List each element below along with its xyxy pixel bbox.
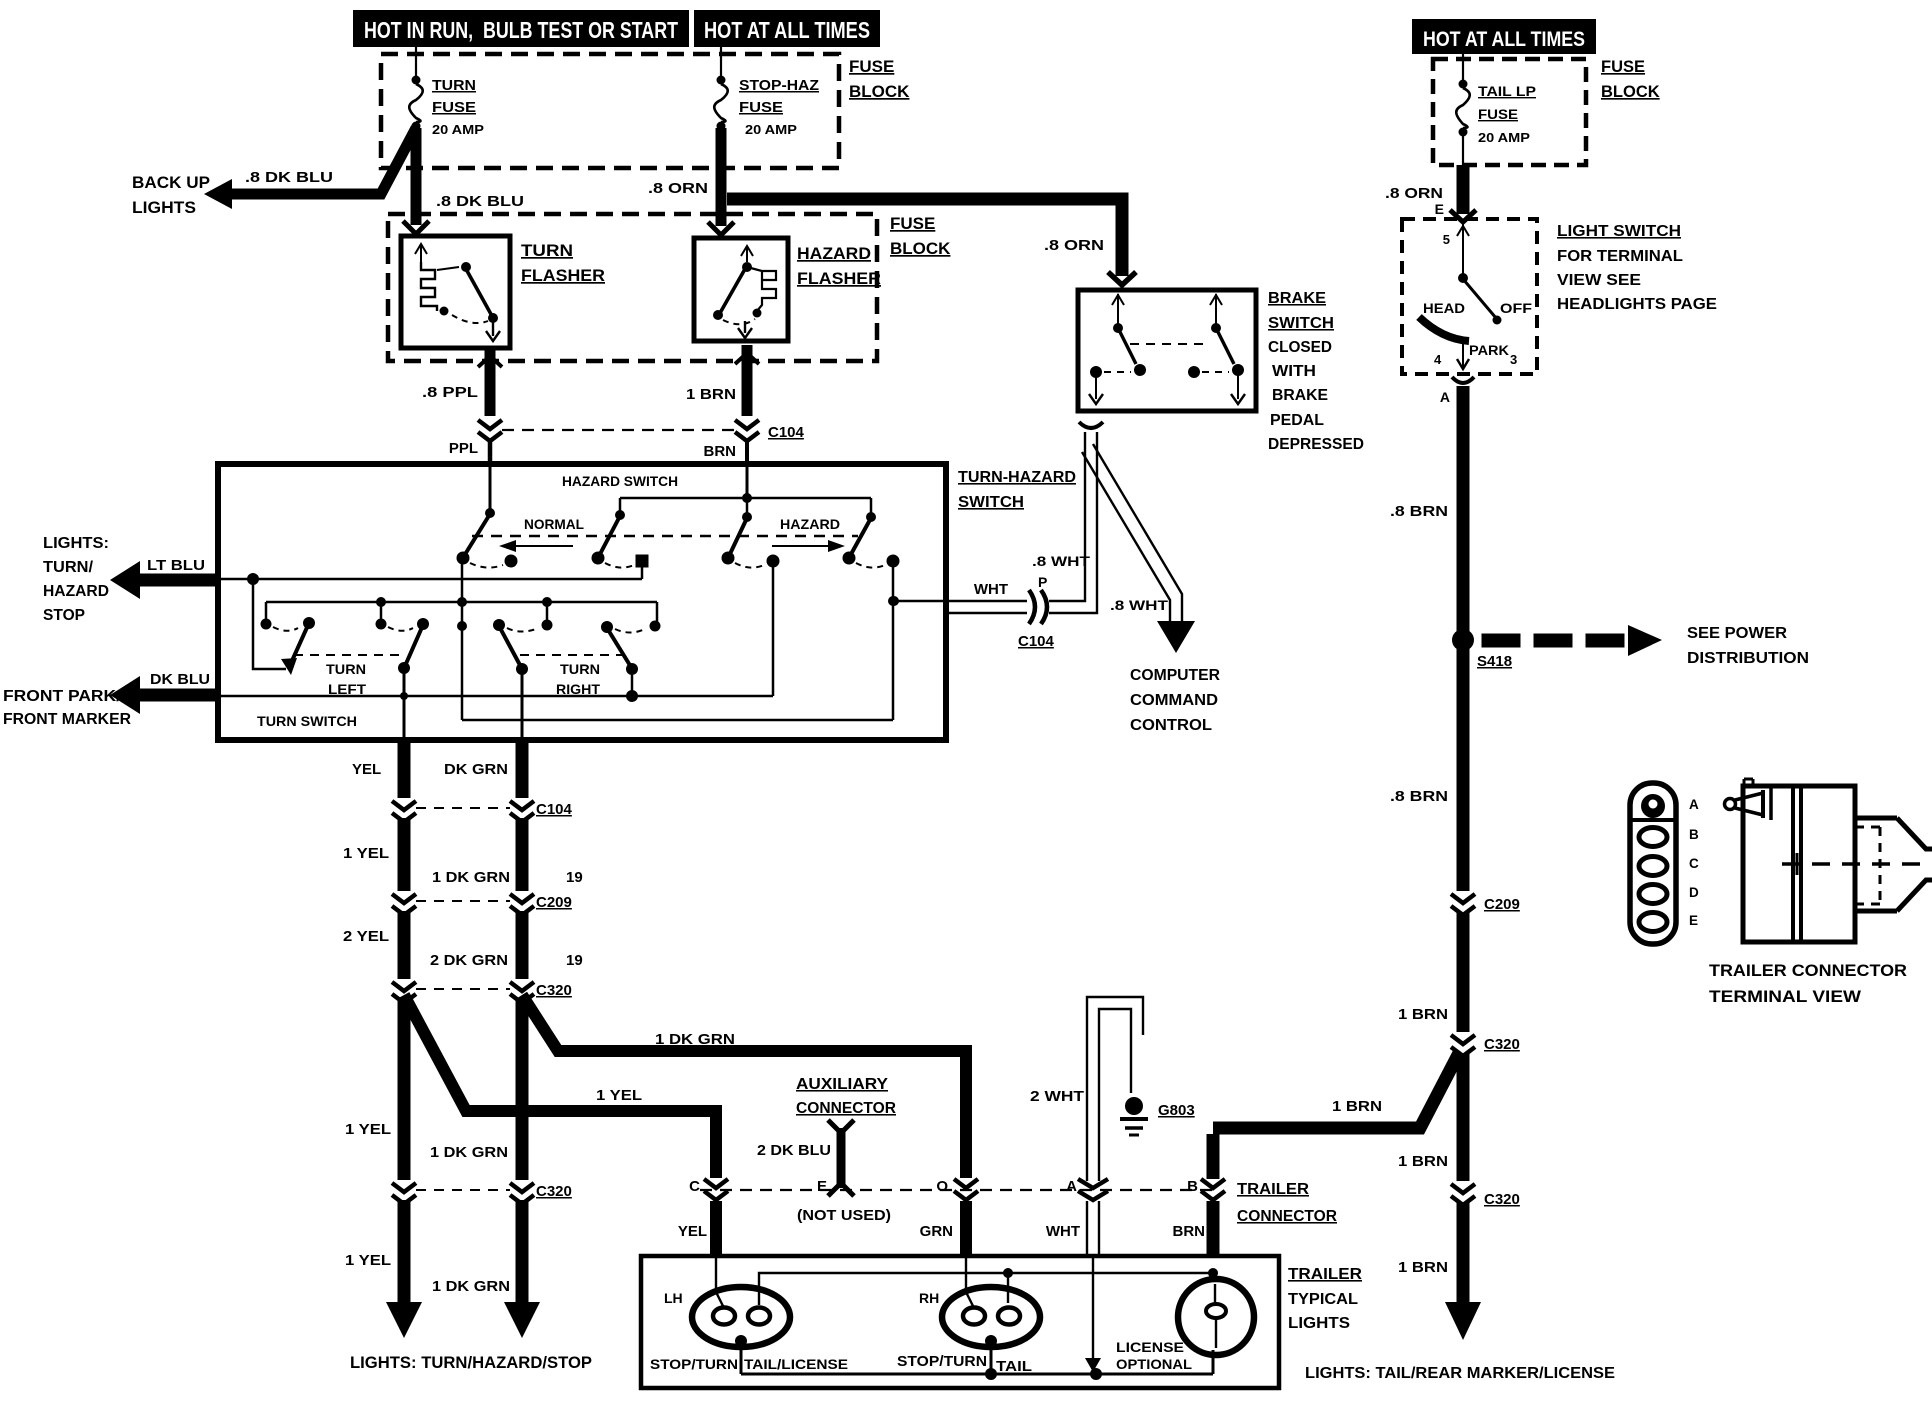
svg-text:.8 DK BLU: .8 DK BLU (436, 193, 524, 210)
svg-text:S418: S418 (1477, 653, 1512, 670)
wire 1 BRN trunk (C209 to C320) (1398, 913, 1463, 1032)
svg-text:19: 19 (566, 869, 583, 886)
svg-text:OFF: OFF (1500, 301, 1532, 316)
svg-text:PPL: PPL (449, 440, 478, 457)
svg-text:2 YEL: 2 YEL (343, 928, 389, 945)
svg-text:CONNECTOR: CONNECTOR (796, 1100, 896, 1117)
svg-text:.8 BRN: .8 BRN (1390, 788, 1448, 805)
svg-text:1 DK GRN: 1 DK GRN (655, 1031, 735, 1048)
wire labels 1 YEL / 1 DK GRN bottom (345, 1252, 510, 1295)
svg-text:(NOT USED): (NOT USED) (797, 1207, 891, 1224)
wire .8 ORN branch to brake switch (727, 199, 1136, 285)
turn right blade (601, 621, 661, 703)
svg-text:2 DK BLU: 2 DK BLU (757, 1142, 831, 1159)
svg-text:1 YEL: 1 YEL (345, 1121, 391, 1138)
svg-text:RH: RH (919, 1290, 939, 1306)
svg-text:C320: C320 (1484, 1191, 1520, 1208)
auxiliary connector (not used) (757, 1076, 896, 1224)
svg-text:TAIL: TAIL (996, 1359, 1032, 1375)
turn left travel dashed line (294, 654, 404, 656)
svg-text:DEPRESSED: DEPRESSED (1268, 436, 1364, 453)
svg-text:TURN SWITCH: TURN SWITCH (257, 713, 357, 729)
light switch (dashed box) (1402, 219, 1537, 374)
svg-text:19: 19 (566, 952, 583, 969)
svg-text:FRONT PARK/: FRONT PARK/ (3, 688, 122, 705)
svg-text:C320: C320 (536, 1183, 572, 1200)
wire PPL into turn-hazard switch (449, 440, 490, 464)
svg-text:TERMINAL VIEW: TERMINAL VIEW (1709, 988, 1861, 1006)
svg-text:C: C (1689, 856, 1699, 871)
svg-text:2 WHT: 2 WHT (1030, 1088, 1084, 1105)
svg-text:WHT: WHT (1046, 1223, 1080, 1240)
wire license optional drop (1085, 1256, 1192, 1372)
connector C209 (YEL/DK GRN row) (392, 894, 572, 915)
fuse F3 TAIL LP FUSE 20 AMP (1456, 54, 1536, 165)
svg-text:1 DK GRN: 1 DK GRN (430, 1144, 508, 1161)
label FUSE BLOCK (left) (849, 57, 910, 101)
svg-text:C320: C320 (536, 982, 572, 999)
wire 2 WHT hairpin to ground (1030, 997, 1143, 1181)
lamp LH stop/turn tail/license (664, 1256, 790, 1374)
svg-text:PEDAL: PEDAL (1270, 412, 1324, 429)
svg-text:AUXILIARY: AUXILIARY (796, 1076, 889, 1093)
trailer lamp common bus (741, 1350, 1213, 1380)
svg-text:STOP/TURN: STOP/TURN (650, 1356, 738, 1372)
svg-text:TURN: TURN (560, 661, 600, 677)
label BRAKE SWITCH CLOSED WITH BRAKE PEDAL DEPRESSED (1268, 290, 1364, 453)
svg-text:HAZARD: HAZARD (780, 516, 840, 532)
svg-text:FOR TERMINAL: FOR TERMINAL (1557, 248, 1683, 265)
svg-text:A: A (1066, 1178, 1077, 1195)
ground G803 (1120, 1097, 1195, 1135)
svg-text:BRN: BRN (704, 443, 737, 460)
svg-text:TAIL LP: TAIL LP (1478, 83, 1536, 99)
svg-text:TURN-HAZARD: TURN-HAZARD (958, 469, 1076, 486)
svg-text:.8 ORN: .8 ORN (1385, 185, 1443, 202)
svg-text:FLASHER: FLASHER (521, 266, 605, 285)
connector C104 (YEL/DK GRN row) (392, 801, 573, 822)
svg-text:1 BRN: 1 BRN (1398, 1153, 1448, 1170)
svg-text:STOP-HAZ: STOP-HAZ (739, 77, 819, 94)
svg-text:1 YEL: 1 YEL (345, 1252, 391, 1269)
svg-text:BRN: BRN (1173, 1223, 1206, 1240)
turn-hazard switch box (218, 464, 946, 740)
svg-text:HOT IN RUN, BULB TEST OR STAR: HOT IN RUN, BULB TEST OR START (364, 17, 678, 43)
svg-text:G803: G803 (1158, 1102, 1195, 1119)
DK BLU bus inside switch (line A) (218, 695, 773, 698)
turn switch blade 2 (to YEL) (376, 602, 430, 674)
wire 1 DK GRN branch to trailer connector O (522, 995, 966, 1178)
label HAZARD SWITCH (562, 473, 678, 489)
svg-text:BLOCK: BLOCK (849, 82, 910, 101)
svg-text:LIGHTS: TURN/HAZARD/STOP: LIGHTS: TURN/HAZARD/STOP (350, 1354, 592, 1372)
wire 1 YEL branch to trailer connector C (404, 995, 716, 1178)
svg-text:STOP: STOP (43, 607, 85, 624)
connector A (trailer, WHT) (1046, 1178, 1108, 1256)
label LIGHTS: TURN/HAZARD/STOP (350, 1354, 592, 1372)
wire .8 ORN tail lp fuse to light switch (1385, 165, 1476, 222)
power feed label HOT IN RUN BULB TEST OR START (353, 10, 689, 47)
svg-text:C104: C104 (1018, 633, 1055, 650)
svg-text:VIEW SEE: VIEW SEE (1557, 272, 1641, 289)
wire LT BLU output arrow (110, 557, 218, 599)
hazard switch travel dashed line (472, 535, 858, 537)
hazard flasher U2 (694, 238, 881, 341)
svg-text:CONNECTOR: CONNECTOR (1237, 1208, 1337, 1225)
hazard feed bus (BRN) (620, 464, 871, 515)
svg-text:A: A (1440, 389, 1450, 405)
wire .8 PPL flasher to connector (422, 348, 502, 416)
label TURN RIGHT (556, 661, 600, 697)
svg-text:E: E (1435, 201, 1444, 217)
normal direction arrow (499, 540, 573, 552)
trailer typical lights box (641, 1256, 1279, 1388)
lamp RH stop/turn tail (919, 1256, 1040, 1374)
svg-text:TAIL/LICENSE: TAIL/LICENSE (744, 1356, 848, 1372)
svg-text:LIGHTS:: LIGHTS: (43, 535, 109, 552)
label FUSE BLOCK (right) (1601, 58, 1660, 101)
turn flasher U1 (401, 236, 605, 348)
svg-text:2 DK GRN: 2 DK GRN (430, 952, 508, 969)
wire YEL (turn left feed) (386, 740, 422, 1338)
svg-text:E: E (817, 1178, 827, 1195)
fuse block 2 (dashed box, flashers) (388, 214, 877, 361)
connector C320 (trunk 2) (1451, 1184, 1520, 1208)
svg-text:HAZARD SWITCH: HAZARD SWITCH (562, 473, 678, 489)
svg-text:YEL: YEL (678, 1223, 707, 1240)
wire WHT turn-hazard switch to C104 (889, 553, 1169, 613)
connector C (trailer, YEL) (678, 1178, 728, 1256)
svg-text:GRN: GRN (920, 1223, 953, 1240)
svg-text:O: O (936, 1178, 948, 1195)
wire YEL column to box bottom (400, 668, 408, 740)
svg-text:1 DK GRN: 1 DK GRN (432, 1278, 510, 1295)
svg-text:LIGHTS: LIGHTS (132, 198, 196, 217)
labels trailer lamp functions (650, 1353, 1032, 1375)
fuse F2 STOP-HAZ FUSE 20 AMP (714, 47, 819, 168)
svg-text:20 AMP: 20 AMP (432, 122, 484, 137)
connector C104 (PPL) (478, 420, 502, 441)
fuse block 1 (dashed box) (381, 54, 839, 168)
connector C320 (YEL/DK GRN row 2) (392, 1183, 572, 1204)
svg-text:FUSE: FUSE (849, 57, 894, 76)
label BACK UP LIGHTS (132, 173, 210, 217)
svg-text:HAZARD: HAZARD (43, 583, 109, 600)
hazard blade 1 (PPL feed) (457, 464, 518, 568)
svg-text:C209: C209 (536, 894, 572, 911)
label NORMAL (524, 516, 584, 532)
svg-text:TRAILER: TRAILER (1237, 1181, 1309, 1198)
svg-text:CONTROL: CONTROL (1130, 717, 1212, 734)
svg-text:DK GRN: DK GRN (444, 761, 508, 778)
connector C209 (trunk) (1451, 894, 1520, 915)
svg-text:OPTIONAL: OPTIONAL (1116, 1357, 1192, 1372)
svg-text:1 BRN: 1 BRN (1398, 1259, 1448, 1276)
label TURN SWITCH (257, 713, 357, 729)
turn left blade (253, 579, 315, 675)
connector C104 (WHT, inline arcs) (1018, 590, 1055, 650)
tail bus inside trailer box (759, 1268, 1218, 1305)
label COMPUTER COMMAND CONTROL (1130, 667, 1220, 734)
svg-text:BLOCK: BLOCK (1601, 83, 1660, 101)
wire 1 BRN trailer connector B to trunk (1213, 1053, 1459, 1128)
svg-text:TURN/: TURN/ (43, 559, 94, 576)
wire labels 2 YEL / 2 DK GRN / 19 (343, 928, 583, 969)
svg-text:20 AMP: 20 AMP (1478, 130, 1530, 145)
svg-text:1 DK GRN: 1 DK GRN (432, 869, 510, 886)
svg-text:FLASHER: FLASHER (797, 269, 881, 288)
svg-text:FUSE: FUSE (890, 214, 935, 233)
svg-text:BRAKE: BRAKE (1272, 387, 1328, 404)
svg-text:.8 WHT: .8 WHT (1032, 553, 1091, 569)
hazard direction arrow (772, 540, 845, 552)
hazard blade 2 (592, 510, 649, 568)
wire labels YEL/DK GRN top (352, 761, 508, 778)
svg-text:C104: C104 (536, 801, 573, 818)
wire .8 WHT to computer command control (hollow) (1082, 444, 1195, 653)
trailer connector terminal view (pill face) (1630, 783, 1676, 944)
svg-text:RIGHT: RIGHT (556, 681, 600, 697)
hazard contact 4 return (line B) (462, 719, 893, 722)
hazard blade 4 (843, 512, 900, 568)
wire .8 BRN light switch output (1390, 377, 1474, 632)
svg-text:WHT: WHT (974, 581, 1008, 598)
brake switch S1 (1078, 290, 1256, 411)
svg-text:C209: C209 (1484, 896, 1520, 913)
svg-text:FUSE: FUSE (739, 99, 783, 116)
svg-text:4: 4 (1434, 352, 1442, 367)
connector B (trailer, BRN) (1173, 1134, 1226, 1256)
label LIGHTS TURN/HAZARD STOP (43, 535, 109, 624)
wire labels 1 YEL / 1 DK GRN / 19 (343, 845, 583, 886)
fuse F1 TURN FUSE 20 AMP (409, 47, 484, 168)
svg-text:SWITCH: SWITCH (958, 494, 1024, 511)
wire BRN into turn-hazard switch (704, 440, 748, 464)
turn switch blade 3 (to DK GRN) (493, 602, 553, 675)
svg-text:C320: C320 (1484, 1036, 1520, 1053)
LT BLU bus inside switch (218, 564, 642, 585)
lamp license/rear (1178, 1273, 1254, 1355)
svg-text:E: E (1689, 913, 1698, 928)
svg-text:TRAILER: TRAILER (1288, 1266, 1362, 1283)
label FRONT PARK / FRONT MARKER (3, 688, 131, 728)
turn switch feed bus row (266, 597, 657, 624)
label LIGHTS: TAIL/REAR MARKER/LICENSE (1305, 1365, 1615, 1382)
svg-text:BACK UP: BACK UP (132, 173, 210, 192)
svg-text:.8 ORN: .8 ORN (648, 180, 708, 197)
wire .8 DK BLU fuse to turn flasher (403, 128, 524, 234)
svg-text:P: P (1038, 574, 1047, 590)
hazard blade 3 (722, 512, 780, 568)
power feed label HOT AT ALL TIMES (right) (1412, 19, 1596, 54)
svg-text:HOT AT ALL TIMES: HOT AT ALL TIMES (1423, 28, 1585, 51)
label HAZARD (position) (780, 516, 840, 532)
label TURN LEFT (326, 661, 366, 697)
svg-text:STOP/TURN: STOP/TURN (897, 1353, 987, 1370)
svg-text:TYPICAL: TYPICAL (1288, 1291, 1358, 1308)
svg-text:FRONT MARKER: FRONT MARKER (3, 711, 131, 728)
wire DK BLU output arrow (110, 671, 218, 714)
svg-text:B: B (1187, 1178, 1198, 1195)
svg-text:3: 3 (1510, 352, 1517, 367)
svg-text:TRAILER CONNECTOR: TRAILER CONNECTOR (1709, 962, 1907, 980)
power feed label HOT AT ALL TIMES (left) (694, 10, 880, 47)
label TRAILER CONNECTOR (1237, 1181, 1337, 1225)
svg-text:C104: C104 (768, 424, 805, 441)
svg-text:FUSE: FUSE (1601, 58, 1645, 76)
svg-text:LIGHTS: LIGHTS (1288, 1315, 1350, 1332)
svg-text:5: 5 (1443, 232, 1450, 247)
svg-text:FUSE: FUSE (432, 99, 476, 116)
svg-text:LEFT: LEFT (328, 681, 366, 697)
svg-text:1 BRN: 1 BRN (1332, 1098, 1382, 1115)
svg-text:PARK: PARK (1469, 343, 1509, 358)
svg-text:.8 PPL: .8 PPL (422, 384, 478, 401)
svg-text:BRAKE: BRAKE (1268, 290, 1326, 307)
svg-text:SWITCH: SWITCH (1268, 315, 1334, 332)
connector C320 (trunk 1) (1451, 1035, 1520, 1056)
svg-text:B: B (1689, 827, 1699, 842)
svg-text:BLOCK: BLOCK (890, 239, 951, 258)
svg-text:1 BRN: 1 BRN (1398, 1006, 1448, 1023)
wire 1 BRN trunk to tail lights (1398, 1203, 1481, 1340)
wire .8 DK BLU to back up lights (204, 128, 416, 209)
svg-text:.8 WHT: .8 WHT (1110, 597, 1169, 613)
label LIGHT SWITCH FOR TERMINAL VIEW SEE HEADLIGHTS PAGE (1557, 223, 1717, 313)
label TURN-HAZARD SWITCH (958, 469, 1076, 511)
trailer connector side view (1725, 779, 1932, 942)
svg-text:YEL: YEL (352, 761, 381, 778)
svg-text:HEAD: HEAD (1423, 301, 1465, 316)
wire hazard contact 4 column (888, 564, 898, 720)
svg-text:CLOSED: CLOSED (1268, 339, 1332, 356)
label TRAILER TYPICAL LIGHTS (1288, 1266, 1362, 1332)
svg-text:LICENSE: LICENSE (1116, 1340, 1184, 1355)
wire 1 BRN trunk (C320 to C320) (1398, 1054, 1463, 1181)
label TRAILER CONNECTOR TERMINAL VIEW (1709, 962, 1907, 1006)
wire DK GRN (turn right feed) (504, 740, 540, 1338)
svg-text:.8 BRN: .8 BRN (1390, 503, 1448, 520)
svg-text:COMMAND: COMMAND (1130, 692, 1218, 709)
wire .8 WHT brake switch drop (hollow) (1049, 422, 1103, 613)
svg-text:1 BRN: 1 BRN (686, 386, 736, 403)
svg-text:D: D (1689, 885, 1699, 900)
svg-text:DK BLU: DK BLU (150, 671, 210, 688)
wire .8 BRN trunk (S418 to C209) (1390, 648, 1463, 891)
svg-text:.8 ORN: .8 ORN (1044, 237, 1104, 254)
fuse block 3 (dashed box, tail lp) (1433, 59, 1586, 165)
svg-text:LT BLU: LT BLU (147, 557, 205, 574)
svg-text:SEE POWER: SEE POWER (1687, 625, 1787, 642)
connector C320 (YEL/DK GRN row 1) (392, 982, 572, 1003)
svg-text:A: A (1689, 797, 1699, 812)
svg-text:TURN: TURN (432, 77, 476, 94)
wire 1 BRN flasher to connector (686, 345, 759, 416)
wire .8 ORN fuse to hazard flasher (648, 128, 734, 235)
svg-text:TURN: TURN (326, 661, 366, 677)
wire labels 1 YEL / 1 DK GRN mid (345, 1121, 508, 1161)
connector O (trailer, GRN) (920, 1178, 978, 1256)
svg-text:C: C (689, 1178, 700, 1195)
wire hazard contact 3 column (772, 564, 775, 696)
svg-text:WITH: WITH (1272, 363, 1316, 380)
svg-text:.8 DK BLU: .8 DK BLU (245, 169, 333, 186)
svg-text:NORMAL: NORMAL (524, 516, 584, 532)
splice S418 with SEE POWER DISTRIBUTION arrow (1452, 625, 1809, 670)
label FUSE BLOCK (flashers) (890, 214, 951, 258)
center column (hazard feed to turn switch) (457, 558, 467, 720)
turn right travel dashed line (520, 654, 630, 656)
trailer connector dashed line (700, 1189, 1218, 1191)
svg-text:1 YEL: 1 YEL (343, 845, 389, 862)
svg-text:LIGHT SWITCH: LIGHT SWITCH (1557, 223, 1681, 240)
svg-text:20 AMP: 20 AMP (745, 122, 797, 137)
svg-text:TURN: TURN (521, 241, 573, 260)
svg-text:1 YEL: 1 YEL (596, 1087, 642, 1104)
svg-text:HAZARD: HAZARD (797, 244, 871, 263)
svg-text:FUSE: FUSE (1478, 106, 1518, 122)
svg-text:COMPUTER: COMPUTER (1130, 667, 1220, 684)
dashed connector line C104 row (502, 429, 738, 431)
svg-text:HOT AT ALL TIMES: HOT AT ALL TIMES (704, 17, 870, 43)
connector C104 (BRN) (735, 420, 805, 441)
svg-text:HEADLIGHTS PAGE: HEADLIGHTS PAGE (1557, 296, 1717, 313)
svg-text:LH: LH (664, 1290, 683, 1306)
terminal letters A-E (1689, 797, 1699, 928)
svg-text:DISTRIBUTION: DISTRIBUTION (1687, 650, 1809, 667)
svg-text:LIGHTS: TAIL/REAR MARKER/LICEN: LIGHTS: TAIL/REAR MARKER/LICENSE (1305, 1365, 1615, 1382)
wire DK GRN column to box bottom (521, 669, 524, 740)
